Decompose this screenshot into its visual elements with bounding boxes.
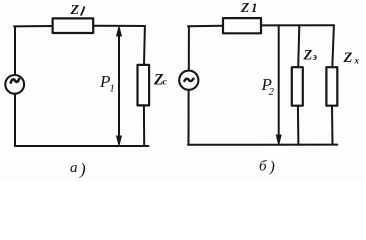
wire bottom horizontal — [188, 144, 337, 146]
wire middle branch vertical lower — [297, 106, 300, 145]
wire top horizontal right segment — [94, 25, 146, 27]
wire left vertical bottom (source to bottom-left corner) — [14, 94, 16, 146]
source G2 (AC source circle) — [179, 71, 198, 90]
svg-text:б: б — [259, 159, 267, 175]
svg-text:Z: Z — [303, 48, 313, 64]
arrow P2 (down arrow) — [278, 25, 280, 138]
svg-text:Z: Z — [240, 0, 249, 15]
resistor Z1b (box) — [223, 18, 261, 33]
wire right vertical lower — [143, 105, 145, 146]
svg-text:Z: Z — [343, 50, 353, 66]
wire middle branch vertical upper (to Ze box) — [298, 25, 299, 67]
wire left vertical bottom — [188, 90, 190, 145]
impedance Ze (box) — [292, 67, 303, 106]
resistor Z1 (box) — [53, 18, 94, 33]
wire right vertical upper — [143, 26, 146, 65]
source G2 sine symbol — [184, 79, 193, 81]
wire bottom horizontal — [15, 145, 149, 147]
wire right vertical lower (Zx to bottom) — [331, 106, 334, 145]
svg-text:1: 1 — [251, 0, 258, 15]
wire top horizontal right segment — [261, 24, 334, 26]
wire left vertical top — [188, 26, 190, 70]
impedance Zx (box) — [326, 67, 337, 106]
source G1 sine symbol — [11, 79, 19, 83]
svg-text:): ) — [79, 160, 86, 179]
wire top horizontal left segment — [14, 25, 52, 27]
svg-text:а: а — [70, 160, 78, 176]
svg-text:2: 2 — [269, 86, 275, 98]
svg-text:1: 1 — [110, 84, 115, 95]
source G1 (AC source circle) — [5, 75, 24, 94]
svg-text:х: х — [354, 56, 360, 66]
svg-text:с: с — [163, 78, 168, 88]
capacitor/impedance Zc (box) — [138, 65, 150, 106]
wire right vertical upper (to Zx box) — [332, 25, 334, 67]
arrow P1 (double headed vertical) — [118, 33, 120, 139]
svg-text:): ) — [269, 159, 275, 176]
wire top horizontal left segment — [188, 25, 223, 28]
wire left vertical top (source to top-left corner) — [14, 27, 16, 75]
svg-text:Z: Z — [70, 3, 80, 18]
svg-text:э: э — [312, 52, 317, 63]
